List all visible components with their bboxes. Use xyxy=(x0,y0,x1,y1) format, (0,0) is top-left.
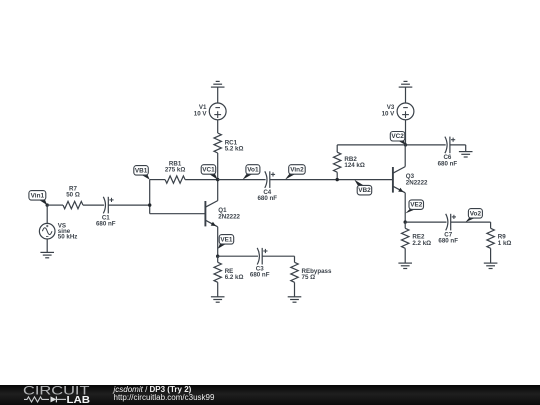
svg-text:10 V: 10 V xyxy=(382,110,396,117)
svg-text:2N2222: 2N2222 xyxy=(218,213,240,220)
ground (below REbypass) xyxy=(288,297,302,302)
wire VE1 to RE xyxy=(217,256,219,262)
wire VB1 to RB1 xyxy=(150,179,165,181)
wire VB1 down to base corner xyxy=(149,180,151,214)
node label VB2 xyxy=(354,180,371,195)
wire V3 to VC2 rail xyxy=(405,120,407,145)
node label Vin2 xyxy=(285,165,305,180)
svg-text:680 nF: 680 nF xyxy=(250,272,270,279)
svg-text:VC1: VC1 xyxy=(202,166,215,173)
svg-text:VC2: VC2 xyxy=(391,133,404,140)
svg-text:2.2 kΩ: 2.2 kΩ xyxy=(412,240,431,247)
ground (right of C6) xyxy=(459,152,473,157)
svg-text:75 Ω: 75 Ω xyxy=(302,274,316,281)
resistor RE 6.2 kOhm xyxy=(214,262,243,282)
wire REbypass to ground xyxy=(294,282,296,297)
svg-text:2N2222: 2N2222 xyxy=(406,180,428,187)
wire C6 right xyxy=(450,144,466,146)
node label Vo2 xyxy=(466,209,483,223)
wire RC1 to Q1 collector (VC1 column) xyxy=(217,153,219,201)
svg-text:680 nF: 680 nF xyxy=(438,160,458,167)
logo diode xyxy=(51,396,57,402)
wire R7 to C1 xyxy=(83,204,104,206)
wire V1 to RC1 xyxy=(217,120,219,133)
wire Vin1 to R7 xyxy=(47,204,63,206)
junction input/base column xyxy=(148,203,151,206)
wire RE2 to ground xyxy=(404,248,406,263)
capacitor C7 680 nF xyxy=(438,214,458,245)
ground (below RE2) xyxy=(398,263,412,268)
wire C4 to Q3 base xyxy=(270,179,393,181)
node label Vo1 xyxy=(243,165,260,180)
node label VC2 xyxy=(390,132,405,145)
transistor Q3 2N2222 xyxy=(393,167,428,193)
ground (below VS) xyxy=(40,252,54,257)
wire VS to ground xyxy=(46,239,48,252)
resistor RC1 5.2 kOhm xyxy=(214,133,243,153)
wire C3 to REbypass xyxy=(262,255,294,257)
svg-text:Vin1: Vin1 xyxy=(31,192,45,199)
junction VE2 xyxy=(404,220,407,223)
wire down to REbypass xyxy=(294,256,296,262)
wire VE1 to C3 xyxy=(218,255,258,257)
svg-text:VB1: VB1 xyxy=(135,167,148,174)
svg-text:Vo2: Vo2 xyxy=(470,210,482,217)
node label VE1 xyxy=(218,235,234,249)
resistor RE2 2.2 kOhm xyxy=(402,228,432,248)
junction RB2/base xyxy=(336,178,339,181)
svg-text:VE2: VE2 xyxy=(410,202,423,209)
resistor RB1 275 kOhm xyxy=(165,160,185,183)
resistor RB2 124 kOhm xyxy=(334,152,365,172)
resistor R9 1 kOhm xyxy=(487,228,512,248)
svg-text:1 kΩ: 1 kΩ xyxy=(498,240,512,247)
ground (above V1) xyxy=(211,81,225,87)
capacitor C3 680 nF xyxy=(250,248,270,279)
wire rail RB2 to VC2 xyxy=(337,144,405,146)
capacitor C4 680 nF xyxy=(257,171,277,202)
wire RE to ground xyxy=(217,282,219,297)
svg-text:VE1: VE1 xyxy=(220,236,233,243)
wire VC2 to Q3 collector xyxy=(404,145,406,167)
svg-text:LAB: LAB xyxy=(67,395,91,405)
junction Vin1/VS xyxy=(46,203,49,206)
ground (above V3) xyxy=(399,81,413,87)
svg-text:6.2 kΩ: 6.2 kΩ xyxy=(225,274,244,281)
voltage source V1 10 V xyxy=(194,103,226,120)
junction VC1 xyxy=(216,178,219,181)
capacitor C1 680 nF xyxy=(96,197,116,228)
svg-text:680 nF: 680 nF xyxy=(438,238,458,245)
wire Q3 emitter to VE2 xyxy=(404,193,406,222)
svg-text:50 Ω: 50 Ω xyxy=(66,191,80,198)
wire down to ground xyxy=(465,145,467,152)
wire V3 to ground xyxy=(405,87,407,103)
ground (below R9) xyxy=(484,263,498,268)
node label VB1 xyxy=(134,166,150,180)
wire RB2 to base wire xyxy=(336,172,338,179)
wire C1 to base node column xyxy=(108,204,149,206)
capacitor C6 680 nF xyxy=(438,137,458,168)
wire down to R9 xyxy=(490,222,492,228)
svg-text:http://circuitlab.com/c3usk99: http://circuitlab.com/c3usk99 xyxy=(114,393,215,402)
wire VC1 to C4 xyxy=(218,179,266,181)
svg-text:Vin2: Vin2 xyxy=(290,166,304,173)
svg-text:10 V: 10 V xyxy=(194,110,208,117)
svg-text:Vo1: Vo1 xyxy=(247,166,259,173)
junction VC2 xyxy=(404,143,407,146)
source VS sine 50 kHz xyxy=(39,222,77,240)
wire Q1 emitter to VE1 xyxy=(217,227,219,256)
svg-text:680 nF: 680 nF xyxy=(96,221,116,228)
voltage source V3 10 V xyxy=(382,103,414,120)
wire RB1 to VC1 node xyxy=(185,179,218,181)
wire Vin1 node down to VS xyxy=(46,205,48,223)
svg-text:5.2 kΩ: 5.2 kΩ xyxy=(225,146,244,153)
svg-text:680 nF: 680 nF xyxy=(257,195,277,202)
resistor R7 50 Ohm xyxy=(63,185,83,209)
wire R9 to ground xyxy=(490,248,492,263)
wire VC2 to C6 xyxy=(406,144,446,146)
transistor Q1 2N2222 xyxy=(205,201,240,227)
node label VC1 xyxy=(201,165,218,180)
ground (below RE) xyxy=(211,297,225,302)
junction VE1 xyxy=(216,255,219,258)
wire VE2 to RE2 xyxy=(404,222,406,228)
node label Vin1 xyxy=(29,191,47,206)
wire to Q1 base xyxy=(150,213,206,215)
svg-text:124 kΩ: 124 kΩ xyxy=(344,162,364,169)
wire V1 to ground xyxy=(217,87,219,103)
logo waveform resistor squiggle xyxy=(24,397,49,402)
svg-text:275 kΩ: 275 kΩ xyxy=(165,166,185,173)
node label VE2 xyxy=(405,200,423,214)
wire C7 to R9 xyxy=(451,221,491,223)
svg-text:VB2: VB2 xyxy=(358,187,371,194)
wire VE2 to C7 xyxy=(405,221,446,223)
resistor REbypass 75 Ohm xyxy=(291,262,332,282)
svg-text:50 kHz: 50 kHz xyxy=(58,233,78,240)
wire rail to RB2 xyxy=(336,145,338,152)
